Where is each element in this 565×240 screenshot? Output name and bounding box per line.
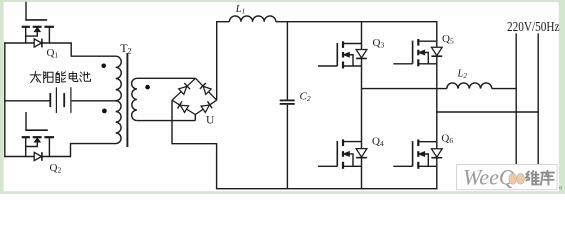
wire C2 top lead [286, 21, 288, 100]
svg-text:220V/50Hz: 220V/50Hz [507, 20, 560, 35]
diode bridge bottom-right [201, 101, 212, 112]
watermark weiku text [526, 171, 554, 185]
diode Q6 body [431, 149, 442, 158]
diode Q1 body [34, 39, 42, 48]
label Q2 [50, 162, 62, 175]
label T2 [120, 41, 131, 56]
wire battery left [4, 100, 50, 102]
watermark WeeQ [463, 165, 515, 190]
diode Q5 body [431, 47, 442, 56]
wire output line 2 [537, 33, 539, 165]
node dot T2 primary lower [102, 109, 107, 114]
svg-text:U: U [206, 115, 215, 127]
wire Q1 gate stub [25, 2, 27, 21]
wire top rail left [216, 21, 229, 23]
wire H-bridge right leg [436, 21, 438, 189]
transformer T2 primary lower [116, 101, 121, 144]
transistor Q4 [318, 139, 362, 168]
transistor Q1 [22, 20, 54, 43]
wire T2 secondary bottom [137, 120, 195, 122]
transistor Q2 [22, 130, 54, 157]
node dot T2 secondary [145, 85, 150, 90]
wire Q2 drain to T2 [42, 144, 116, 157]
wire Q1 drain to T2 [42, 43, 116, 56]
transistor Q6 [393, 140, 437, 169]
wire bottom rail [216, 188, 438, 190]
watermark box [457, 165, 558, 190]
watermark oo [509, 174, 524, 185]
label solar battery [30, 71, 90, 82]
diode bridge bottom-left [178, 101, 189, 112]
wire left-leg midpoint to L2 [362, 88, 447, 90]
wire bridge DC minus [172, 100, 217, 189]
transformer T2 core [126, 53, 128, 147]
label L1 [235, 4, 245, 16]
wire right-leg midpoint to output [437, 111, 538, 113]
transformer T2 secondary [132, 78, 137, 120]
transformer T2 primary upper [116, 56, 122, 101]
wire top rail right [276, 21, 437, 23]
label Q5 [442, 33, 454, 46]
inductor L2 [447, 83, 492, 89]
wire H-bridge left leg [361, 21, 363, 189]
label U [206, 115, 215, 127]
label Q3 [373, 37, 385, 50]
label Q1 [47, 47, 59, 60]
transistor Q3 [318, 41, 362, 68]
diode bridge top-left [179, 83, 190, 94]
wire T2 secondary top to bridge [137, 77, 196, 79]
label 220V/50Hz [507, 20, 560, 35]
diode bridge top-right [200, 83, 211, 94]
battery B1 [50, 87, 71, 113]
label Q6 [441, 132, 453, 145]
diode Q3 body [356, 49, 367, 58]
capacitor C2 [280, 100, 295, 104]
diode Q2 body [34, 152, 42, 161]
watermark corner mark [559, 183, 563, 192]
svg-text:WeeQ: WeeQ [463, 165, 515, 190]
diode Q4 body [356, 149, 367, 158]
wire Q1 source [4, 42, 34, 44]
wire battery to center tap [72, 100, 116, 102]
label C2 [300, 91, 311, 104]
wire bridge DC plus [216, 22, 218, 101]
wire left bus [4, 42, 6, 157]
wire bridge AC bottom stub [194, 115, 196, 121]
label L2 [457, 69, 468, 81]
wire C2 bottom lead [286, 105, 288, 189]
wire Q2 source [4, 156, 34, 158]
label Q4 [372, 136, 384, 149]
node dot T2 primary upper [101, 64, 106, 69]
transistor Q5 [393, 39, 437, 66]
wire L2 to output [492, 88, 516, 90]
wire output line 1 [515, 33, 517, 165]
svg-text:«: « [559, 183, 563, 192]
wire Q2 gate stub [25, 112, 27, 131]
inductor L1 [229, 16, 275, 22]
rectifier bridge U frame [172, 78, 217, 114]
